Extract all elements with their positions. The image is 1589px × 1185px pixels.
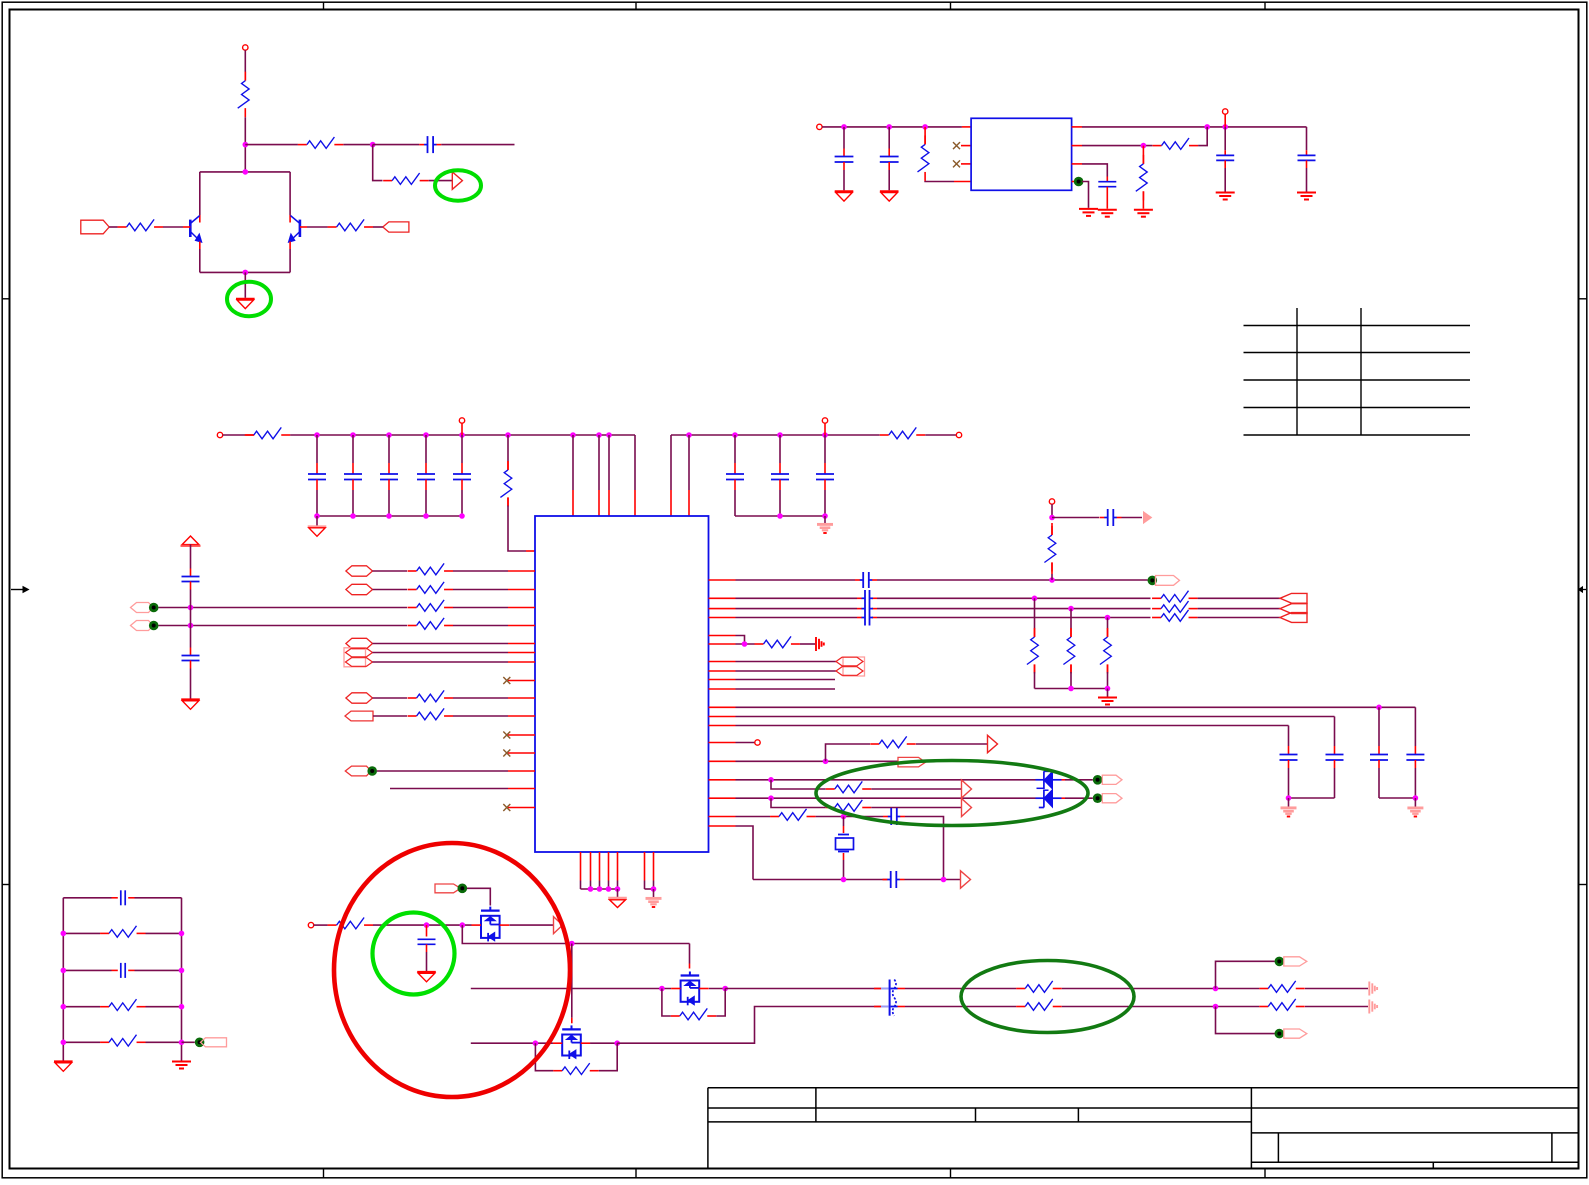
IC right pin: [709, 635, 736, 637]
wire: [670, 435, 672, 516]
no-connect x: [503, 732, 510, 739]
wire: [736, 617, 878, 619]
resistor: [1027, 598, 1038, 688]
ground: [1281, 798, 1297, 817]
IC right pin: [709, 706, 736, 708]
wire: [109, 226, 117, 228]
resistor R10: [500, 435, 535, 551]
capacitor C at x=1306.5: [1298, 127, 1316, 192]
no-connect x: [503, 677, 510, 684]
wire: [1198, 617, 1280, 619]
port tag green-dot: [345, 766, 377, 776]
pin: [962, 126, 971, 128]
IC right pin: [709, 779, 736, 781]
wire: [182, 1041, 195, 1043]
wire: [373, 652, 509, 654]
port tag green-dot: [195, 1038, 227, 1048]
wire: [736, 597, 878, 599]
wire: [61, 968, 185, 974]
resistor: [826, 800, 872, 811]
IC right pin: [709, 797, 736, 799]
port tag: [898, 757, 926, 767]
port double tag: [836, 657, 865, 676]
wire: [200, 172, 290, 223]
annotation green circle: [373, 913, 455, 995]
resistor R11: [880, 427, 926, 438]
port tag green-dot: [1148, 576, 1180, 586]
port filled arrow: [1144, 512, 1152, 523]
IC right pin: [709, 617, 736, 619]
wire: [373, 661, 509, 663]
capacitor C: [1370, 707, 1388, 798]
wire: [753, 877, 888, 883]
IC top pin: [598, 435, 600, 516]
wire: [343, 142, 375, 148]
wire: [822, 124, 962, 130]
ground: [880, 191, 899, 201]
port tag green-dot: [1093, 793, 1122, 803]
resistor: [1063, 609, 1074, 689]
capacitor C: [883, 808, 905, 825]
wire: [1216, 961, 1275, 988]
wire: [471, 986, 671, 992]
port arrow: [962, 799, 972, 817]
IC left pin: [508, 661, 535, 663]
terminal: [459, 418, 464, 435]
wire: [159, 623, 408, 629]
no-connect x pin: [953, 160, 971, 167]
wire: [453, 589, 508, 591]
wire: [373, 715, 407, 717]
wire: [373, 589, 408, 591]
wire: [925, 434, 956, 436]
wire: [390, 788, 508, 790]
wire: [671, 432, 880, 438]
wire: [736, 826, 754, 880]
annotation green ellipse: [435, 170, 481, 200]
wire: [243, 117, 249, 172]
wire: [453, 607, 508, 609]
IC right pin: [709, 760, 736, 762]
wire: [1198, 608, 1280, 610]
wire: [61, 1040, 185, 1046]
annotation red ellipse: [334, 843, 570, 1097]
MOSFET Q4: [671, 972, 709, 1006]
capacitor C bank2 x=780: [771, 435, 789, 516]
wire: [725, 988, 881, 990]
wire: [1082, 164, 1107, 177]
ground: [308, 527, 327, 537]
resistor: [1152, 601, 1198, 612]
wire: [877, 615, 1151, 621]
wire: [471, 1040, 553, 1046]
wire: [453, 697, 508, 699]
wire: [736, 688, 836, 690]
IC right pin: [709, 816, 736, 818]
wire: [462, 925, 689, 946]
wire: [290, 432, 635, 438]
port double tag: [344, 648, 373, 667]
wire: [736, 579, 856, 581]
resistor R4: [118, 219, 164, 230]
IC right pin: [709, 725, 736, 727]
resistor R9: [245, 427, 291, 438]
wire: [509, 924, 553, 926]
wire: [736, 816, 771, 818]
resistor: [408, 600, 454, 611]
IC bottom pin: [590, 852, 592, 889]
capacitor C at x=844: [835, 127, 854, 190]
supply terminal: [243, 45, 248, 50]
ground: [1297, 193, 1316, 200]
wire: [877, 577, 1148, 583]
no-connect x pin: [953, 142, 971, 149]
IC left pin: [508, 680, 535, 682]
no-connect x: [503, 750, 510, 757]
border center arrow right: [1579, 587, 1586, 592]
output terminal: [1223, 109, 1228, 127]
capacitor C bank2 x=825: [816, 435, 834, 516]
port arrow: [961, 871, 971, 888]
ground: [1079, 209, 1098, 216]
transistor Q2: [288, 216, 307, 243]
capacitor C bank x=426: [417, 435, 435, 516]
ground: [835, 191, 854, 201]
annotation dark green ellipse: [816, 761, 1088, 826]
IC left pin: [508, 807, 535, 809]
resistor: [408, 563, 454, 574]
wire: [163, 226, 183, 228]
capacitor C at x=889.2: [880, 127, 899, 190]
wire: [314, 513, 465, 519]
wire: [1305, 1006, 1368, 1008]
wire: [200, 242, 290, 273]
IC top pin: [688, 435, 690, 516]
wire: [200, 270, 290, 276]
ground rotated: [816, 637, 824, 651]
IC right pin: [709, 661, 736, 663]
TVS diode D1: [1036, 771, 1062, 807]
wire: [1198, 127, 1207, 146]
input terminal: [817, 124, 822, 129]
title block: [708, 1088, 1579, 1169]
wire: [826, 744, 871, 761]
resistor R8: [1136, 146, 1147, 209]
ground: [646, 889, 662, 907]
IC left pin: [508, 589, 535, 591]
resistor: [770, 809, 816, 820]
wire: [1216, 1007, 1275, 1034]
wire: [373, 697, 408, 699]
ground: [1407, 798, 1423, 817]
IC bottom pin: [599, 852, 601, 889]
wire: [871, 807, 961, 809]
wire: [190, 661, 192, 699]
wire: [905, 817, 944, 880]
wire: [771, 780, 826, 789]
IC left pin: [508, 643, 535, 645]
port OUT1 arrow: [452, 172, 462, 189]
wire: [736, 795, 1036, 801]
wire: [244, 50, 246, 80]
wire: [590, 1040, 620, 1046]
port triple tag: [1280, 593, 1307, 622]
port tag green-dot: [435, 884, 467, 894]
resistor R7: [1153, 138, 1199, 149]
wire: [159, 605, 408, 611]
wire: [61, 1004, 185, 1010]
ground: [1098, 689, 1117, 705]
IC bottom pin: [653, 852, 655, 889]
port IN- tag: [383, 222, 409, 232]
no-connect x: [503, 804, 510, 811]
wire: [736, 661, 837, 663]
wire: [61, 931, 185, 937]
IC right pin: [709, 679, 736, 681]
IC right pin: [709, 597, 736, 599]
wire: [925, 180, 971, 183]
capacitor C: [1280, 726, 1298, 799]
resistor: [1016, 981, 1062, 992]
resistor: [408, 708, 454, 719]
port tag: [345, 711, 373, 721]
wire: [373, 144, 420, 146]
wire: [1122, 517, 1143, 519]
resistor: [100, 926, 146, 937]
port arrow: [988, 735, 998, 752]
wire: [877, 596, 1151, 602]
wire: [905, 988, 1016, 990]
wire: [736, 705, 1416, 711]
ground: [1216, 193, 1235, 200]
wire: [200, 169, 290, 175]
wire: [735, 513, 828, 519]
capacitor C bank x=462: [453, 435, 471, 516]
IC left pin: [508, 607, 535, 609]
resistor: [408, 690, 454, 701]
wire: [223, 434, 255, 436]
resistor bypass: [662, 989, 725, 1020]
wire: [453, 570, 508, 572]
wire: [1062, 779, 1093, 781]
wire: [1082, 182, 1089, 208]
ground: [608, 889, 627, 908]
wire: [736, 742, 755, 744]
wire: [771, 798, 826, 807]
wire: [314, 924, 328, 926]
capacitor C bank x=317: [308, 435, 326, 516]
capacitor C tall bars: [862, 590, 874, 626]
resistor: [754, 636, 800, 647]
ground rotated: [1369, 982, 1377, 996]
wire: [916, 743, 988, 745]
IC left pin: [508, 752, 535, 754]
capacitor C: [1406, 707, 1424, 798]
terminal: [217, 432, 222, 437]
terminal: [755, 740, 760, 745]
wire: [1062, 797, 1093, 799]
border center arrow left: [11, 587, 29, 593]
capacitor C: [855, 572, 877, 588]
IC bottom pin: [608, 852, 610, 889]
wire: [905, 877, 961, 883]
pin: [1072, 163, 1082, 165]
IC left pin: [508, 734, 535, 736]
wire: [905, 1006, 1016, 1008]
wire: [1198, 597, 1280, 599]
wire: [816, 814, 883, 820]
IC left pin: [508, 770, 535, 772]
crystal Y1: [836, 817, 854, 880]
wire: [373, 643, 509, 645]
capacitor C bank2 x=735: [726, 435, 744, 516]
ground: [1134, 210, 1153, 217]
MOSFET Q5: [553, 1025, 591, 1059]
wire: [736, 608, 878, 610]
resistor R6: [918, 127, 929, 181]
wire: [441, 144, 514, 146]
port tag green-dot: [1275, 957, 1307, 967]
annotation green ellipse: [227, 282, 271, 316]
wire: [1379, 795, 1418, 801]
wire: [1049, 504, 1055, 520]
resistor: [1100, 618, 1111, 689]
capacitor C: [1326, 717, 1344, 799]
IC left pin: [508, 697, 535, 699]
terminal: [822, 418, 827, 435]
capacitor C: [883, 871, 905, 888]
wire: [373, 922, 472, 928]
pin: [1072, 181, 1082, 183]
wire: [1035, 686, 1111, 692]
IC U1 box: [535, 516, 709, 852]
wire rail right: [181, 898, 183, 1061]
wire: [190, 608, 192, 626]
capacitor C: [418, 925, 436, 971]
resistor: [1152, 591, 1198, 602]
IC left pin: [508, 788, 535, 790]
IC left pin: [508, 715, 535, 717]
ground: [181, 700, 200, 710]
pin: [1072, 126, 1082, 128]
IC right pin: [709, 643, 736, 645]
port tag green-dot: [131, 621, 159, 631]
terminal: [1049, 499, 1054, 504]
IC left pin: [508, 652, 535, 654]
wire: [1062, 986, 1260, 992]
resistor: [408, 582, 454, 593]
wire: [429, 180, 453, 182]
port tag green-dot: [131, 603, 159, 613]
capacitor C bank x=353: [344, 435, 362, 516]
wire: [800, 643, 815, 645]
wire: [245, 144, 298, 146]
wire: [467, 888, 490, 905]
port arrow: [962, 780, 972, 798]
ground: [1098, 210, 1117, 217]
IC right pin: [709, 608, 736, 610]
resistor: [1259, 981, 1305, 992]
ground rotated: [1369, 1000, 1377, 1014]
port hex: [346, 638, 373, 648]
wire: [190, 582, 192, 608]
capacitor C at x=1225.2: [1216, 127, 1234, 192]
port IN+ tag: [81, 220, 109, 234]
capacitor C: [112, 890, 135, 905]
wire: [63, 897, 181, 899]
wire: [689, 944, 691, 969]
wire: [373, 570, 408, 572]
wire: [1052, 517, 1099, 519]
pin: [1072, 145, 1082, 147]
capacitor C bank x=389: [380, 435, 398, 516]
filter bead: [881, 980, 905, 1016]
wire: [1062, 1004, 1260, 1010]
resistor: [870, 736, 916, 747]
wire: [1286, 795, 1335, 801]
port hex: [346, 584, 373, 594]
MOSFET Q3: [472, 907, 510, 942]
node green dot: [1074, 177, 1084, 187]
capacitor C: [182, 656, 200, 661]
wire: [634, 435, 636, 516]
wire: [645, 886, 657, 892]
wire: [736, 777, 1036, 783]
IC right pin: [709, 825, 736, 827]
IC right pin: [709, 716, 736, 718]
wire: [190, 626, 192, 656]
IC right pin: [709, 688, 736, 690]
wire: [871, 788, 961, 790]
IC right pin: [709, 670, 736, 672]
power arrow: [181, 536, 201, 546]
annotation dark green ellipse: [961, 961, 1134, 1033]
resistor R5: [328, 219, 374, 230]
resistor: [100, 1035, 146, 1046]
resistor bypass: [535, 1043, 617, 1074]
port tag green-dot: [1275, 1029, 1307, 1039]
wire: [244, 272, 246, 297]
wire: [316, 516, 318, 526]
capacitor C: [1100, 509, 1122, 526]
wire: [373, 226, 383, 228]
IC right pin: [709, 742, 736, 744]
wire: [736, 759, 898, 765]
wire: [373, 145, 383, 181]
ground: [172, 1062, 191, 1069]
wire: [736, 725, 1289, 727]
wire: [736, 679, 836, 681]
wire rail left: [62, 898, 64, 1061]
ground: [54, 1062, 73, 1072]
IC bottom pin: [617, 852, 619, 889]
wire: [736, 716, 1335, 718]
IC bottom pin: [580, 852, 582, 889]
port arrow: [554, 917, 563, 934]
IC left pin: [508, 625, 535, 627]
transistor Q1: [183, 216, 202, 243]
capacitor C: [1098, 177, 1116, 209]
port hex: [346, 693, 373, 703]
IC left pin: [508, 570, 535, 572]
wire: [736, 641, 755, 647]
resistor: [100, 999, 146, 1010]
IC right pin: [709, 579, 736, 581]
resistor: [328, 918, 374, 929]
capacitor C: [112, 963, 135, 978]
wire: [877, 606, 1151, 612]
wire: [453, 715, 508, 717]
